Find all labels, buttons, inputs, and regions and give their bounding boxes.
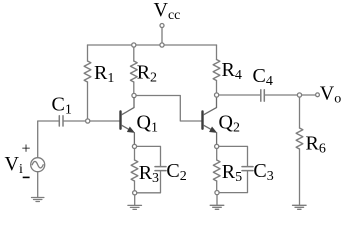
svg-text:Vcc: Vcc <box>154 0 181 23</box>
svg-text:R5: R5 <box>222 161 242 185</box>
capacitor C4 <box>261 90 265 101</box>
terminal Vo <box>316 93 320 97</box>
power Vcc terminal <box>160 24 164 44</box>
junction: R5 bottom node <box>215 191 219 195</box>
wire: C3 bottom to R5 bottom node <box>219 171 247 193</box>
svg-text:Q1: Q1 <box>137 112 158 136</box>
wire: C4 to output node <box>265 94 297 96</box>
ground (under R6) <box>293 205 307 209</box>
junction: output / R6 top node <box>297 93 301 97</box>
junction: R3 bottom node <box>133 191 137 195</box>
resistor R5 <box>213 149 220 191</box>
svg-text:Vi: Vi <box>5 153 23 177</box>
junction: rail / R2 top <box>132 43 136 47</box>
svg-text:C1: C1 <box>52 94 72 118</box>
transistor Q2 <box>203 98 218 145</box>
capacitor C2 <box>155 167 166 171</box>
label: source minus sign <box>23 176 30 178</box>
ground (under R5) <box>210 205 224 209</box>
resistor R2 <box>130 47 137 93</box>
svg-text:Q2: Q2 <box>219 112 240 136</box>
svg-text:R1: R1 <box>94 62 114 86</box>
transistor Q1 <box>121 98 136 145</box>
svg-text:C3: C3 <box>253 160 273 184</box>
wire: C2 bottom to R3 bottom node <box>137 171 161 193</box>
ground (under Vi) <box>32 198 44 202</box>
wire: Q2 collector node to C4 <box>219 94 260 96</box>
junction: Q1 collector node <box>132 93 136 97</box>
wire: R5 bottom to ground <box>216 195 218 205</box>
wire: coupling Q1 collector to Q2 base <box>136 96 201 122</box>
wire: Vcc supply rail <box>88 44 217 46</box>
svg-text:C2: C2 <box>166 160 186 184</box>
wire: C1 to Q1 base <box>64 120 119 122</box>
svg-text:R4: R4 <box>222 59 242 83</box>
wire: emitter node to C2 top <box>137 146 161 166</box>
junction: rail / Vcc tap <box>160 43 164 47</box>
resistor R1 <box>84 45 91 119</box>
svg-text:C4: C4 <box>253 65 273 89</box>
svg-text:R2: R2 <box>137 62 157 86</box>
ground (under R3) <box>128 205 142 209</box>
wire: Q2 emitter node to C3 top <box>219 146 248 166</box>
capacitor C3 <box>242 167 253 171</box>
wire: output node to Vo terminal <box>302 94 316 96</box>
source Vi (sine source) <box>31 158 45 172</box>
svg-text:R3: R3 <box>139 162 159 186</box>
resistor R6 <box>296 97 303 205</box>
junction: Q2 collector node <box>215 93 219 97</box>
wire: Vi to ground <box>37 172 39 197</box>
resistor R4 <box>213 45 220 93</box>
wire: Vi to C1 <box>38 121 59 158</box>
junction: R1 bottom / base wire <box>86 119 90 123</box>
svg-text:R6: R6 <box>306 133 326 157</box>
junction: Q1 emitter node <box>132 144 136 148</box>
svg-text:Vo: Vo <box>320 83 341 107</box>
capacitor C1 <box>59 116 63 126</box>
wire: R3 bottom to ground <box>134 195 136 205</box>
resistor R3 <box>131 149 138 191</box>
svg-text:+: + <box>22 141 31 158</box>
junction: Q2 emitter node <box>215 144 219 148</box>
